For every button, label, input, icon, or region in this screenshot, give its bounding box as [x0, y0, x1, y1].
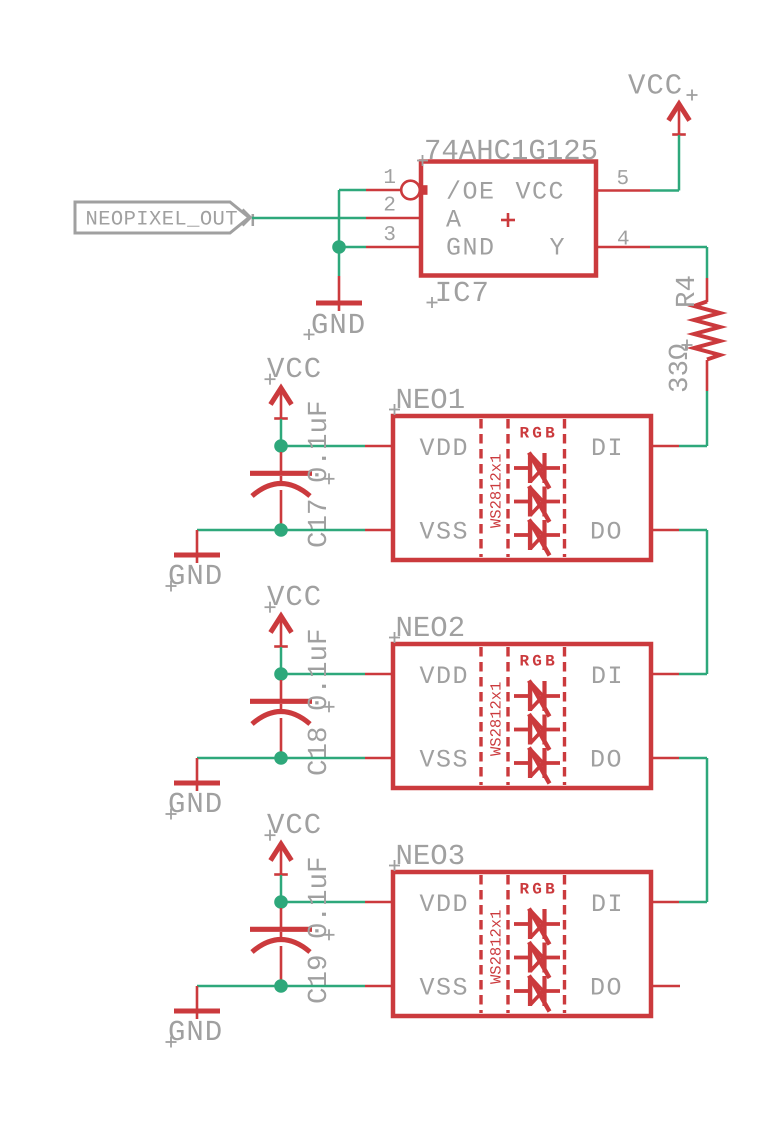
svg-text:GND: GND	[168, 788, 223, 821]
pin label VSS NEO3	[420, 974, 470, 1003]
svg-text:VSS: VSS	[420, 974, 470, 1003]
pin 2 A lead	[366, 217, 421, 220]
label GND (NEO1)	[166, 560, 224, 593]
svg-text:GND: GND	[446, 234, 496, 263]
wire NEOPIXEL_OUT to pin 2	[252, 217, 366, 220]
dashed divider mid NEO3	[506, 875, 509, 1013]
wire VCC to node NEO2-VDD	[280, 647, 283, 674]
svg-text:WS2812x1: WS2812x1	[488, 682, 506, 756]
pin label VDD NEO2	[420, 662, 470, 691]
pin VDD lead NEO3	[365, 901, 393, 904]
pin number 3	[383, 224, 396, 247]
pin 4 Y lead	[596, 246, 650, 249]
pin DO lead NEO1	[651, 529, 679, 532]
label VCC (NEO1)	[265, 353, 323, 386]
svg-text:VDD: VDD	[420, 890, 470, 919]
svg-text:NEO2: NEO2	[396, 612, 466, 645]
component name 74AHC1G125	[417, 135, 598, 168]
wire GND to VSS pin NEO3	[197, 985, 365, 988]
svg-text:DO: DO	[590, 518, 623, 547]
power VCC for NEO3	[271, 844, 292, 875]
label GND (IC7 input)	[304, 309, 367, 342]
wire GND to VSS pin NEO1	[197, 529, 365, 532]
svg-text:33Ω: 33Ω	[665, 343, 696, 393]
svg-text:DO: DO	[590, 746, 623, 775]
ground GND for NEO1	[174, 530, 220, 563]
wire vertical tie pins 1-2-3	[338, 190, 341, 276]
pin VSS lead NEO1	[365, 529, 393, 532]
refdes NEO3	[389, 840, 465, 873]
label GND (NEO3)	[166, 1016, 224, 1049]
svg-text:3: 3	[383, 224, 396, 247]
label VCC (top right)	[628, 70, 698, 103]
svg-text:NEO3: NEO3	[396, 840, 466, 873]
svg-text:1: 1	[383, 167, 396, 190]
label RGB (NEO1)	[520, 425, 558, 443]
power VCC for NEO2	[271, 616, 292, 647]
svg-text:VCC: VCC	[628, 70, 683, 103]
node VSS junction NEO1	[274, 523, 288, 537]
LED D3 inside NEO3	[514, 976, 560, 1012]
LED module NEO2 body	[393, 644, 651, 788]
capacitor C18 0.1uF	[250, 680, 312, 758]
svg-text:0.1uF: 0.1uF	[304, 628, 335, 711]
LED D1 inside NEO1	[514, 453, 560, 489]
node VSS junction NEO2	[274, 751, 288, 765]
wire stub to pin 1	[339, 189, 366, 192]
svg-text:GND: GND	[168, 560, 223, 593]
svg-text:VSS: VSS	[420, 518, 470, 547]
refdes C19	[304, 954, 335, 1004]
wire VCC to node NEO3-VDD	[280, 875, 283, 902]
label VCC (NEO2)	[265, 581, 323, 614]
pin DI lead NEO2	[651, 673, 679, 676]
svg-text:0.1uF: 0.1uF	[304, 400, 335, 483]
svg-text:C18: C18	[304, 726, 335, 776]
label GND (NEO2)	[166, 788, 224, 821]
ground GND for NEO3	[174, 986, 220, 1019]
svg-text:RGB: RGB	[520, 653, 558, 671]
svg-text:VDD: VDD	[420, 662, 470, 691]
LED D1 inside NEO2	[514, 681, 560, 717]
wire pin 4 to R4	[650, 247, 707, 278]
wire NEO2 DO to NEO3 DI	[679, 758, 707, 902]
svg-text:2: 2	[383, 195, 396, 218]
LED module NEO1 body	[393, 416, 651, 560]
svg-text:GND: GND	[168, 1016, 223, 1049]
svg-text:DI: DI	[591, 434, 624, 463]
resistor R4 33 ohm	[694, 278, 720, 391]
origin cross IC7 (red)	[501, 213, 515, 227]
refdes C17	[304, 498, 335, 548]
svg-text:/OE: /OE	[446, 178, 496, 207]
pin label /OE	[446, 178, 496, 207]
node junction pins 2-3-GND	[332, 240, 346, 254]
pin label VCC (IC7)	[516, 178, 566, 207]
label RGB (NEO3)	[520, 881, 558, 899]
svg-text:VDD: VDD	[420, 434, 470, 463]
svg-text:Y: Y	[550, 234, 567, 263]
value 0.1uF (C19)	[304, 856, 335, 940]
value WS2812x1 (NEO3)	[488, 910, 506, 984]
pin VSS lead NEO3	[365, 985, 393, 988]
pin label DI NEO3	[591, 890, 624, 919]
pin DO lead NEO2	[651, 757, 679, 760]
svg-text:DI: DI	[591, 890, 624, 919]
pin VSS lead NEO2	[365, 757, 393, 760]
refdes IC7	[427, 277, 490, 310]
label VCC (NEO3)	[265, 809, 323, 842]
svg-text:RGB: RGB	[520, 881, 558, 899]
value WS2812x1 (NEO2)	[488, 682, 506, 756]
wire node to VDD pin NEO2	[281, 673, 365, 676]
wire GND to VSS pin NEO2	[197, 757, 365, 760]
pin number 4	[617, 229, 630, 252]
pin DI lead NEO1	[651, 445, 679, 448]
svg-text:VCC: VCC	[267, 581, 322, 614]
pin label DO NEO1	[590, 518, 623, 547]
pin 3 GND lead	[366, 246, 421, 249]
pin label DO NEO3	[590, 974, 623, 1003]
pin VDD lead NEO1	[365, 445, 393, 448]
dashed divider right NEO2	[563, 647, 566, 785]
pin label VDD NEO1	[420, 434, 470, 463]
pin VDD lead NEO2	[365, 673, 393, 676]
pin label Y	[550, 234, 567, 263]
refdes R4	[672, 275, 703, 308]
svg-text:GND: GND	[311, 309, 366, 342]
svg-text:VSS: VSS	[420, 746, 470, 775]
pin label A	[446, 206, 463, 235]
pin DO lead NEO3	[651, 985, 680, 988]
ground GND at IC7 input	[316, 276, 362, 311]
refdes C18	[304, 726, 335, 776]
pin label DI NEO1	[591, 434, 624, 463]
pin label DO NEO2	[590, 746, 623, 775]
svg-text:VCC: VCC	[516, 178, 566, 207]
svg-text:IC7: IC7	[435, 277, 490, 310]
power VCC for NEO1	[271, 388, 292, 419]
dashed divider mid NEO2	[506, 647, 509, 785]
svg-text:C19: C19	[304, 954, 335, 1004]
dashed divider left NEO1	[479, 419, 482, 557]
wire node to VDD pin NEO3	[281, 901, 365, 904]
dashed divider left NEO2	[479, 647, 482, 785]
capacitor C17 0.1uF	[250, 452, 312, 530]
svg-text:5: 5	[617, 168, 630, 191]
svg-text:R4: R4	[672, 275, 703, 308]
refdes NEO1	[389, 384, 465, 417]
dashed divider mid NEO1	[506, 419, 509, 557]
wire stub to pin 3	[339, 246, 366, 249]
svg-text:0.1uF: 0.1uF	[304, 856, 335, 939]
pin label VSS NEO1	[420, 518, 470, 547]
svg-text:VCC: VCC	[267, 353, 322, 386]
value 0.1uF (C17)	[304, 400, 335, 484]
wire VCC to node NEO1-VDD	[280, 419, 283, 446]
svg-text:WS2812x1: WS2812x1	[488, 910, 506, 984]
svg-text:74AHC1G125: 74AHC1G125	[424, 135, 598, 168]
refdes NEO2	[389, 612, 465, 645]
value WS2812x1 (NEO1)	[488, 454, 506, 528]
label RGB (NEO2)	[520, 653, 558, 671]
svg-text:RGB: RGB	[520, 425, 558, 443]
power VCC at pin 5 symbol	[669, 104, 690, 135]
net label NEOPIXEL_OUT flag	[75, 202, 253, 233]
value 33 Ohm	[665, 340, 696, 394]
svg-text:DO: DO	[590, 974, 623, 1003]
LED D1 inside NEO3	[514, 909, 560, 945]
svg-text:VCC: VCC	[267, 809, 322, 842]
pin label GND (IC7)	[446, 234, 496, 263]
node VDD junction NEO3	[274, 895, 288, 909]
pin label VDD NEO3	[420, 890, 470, 919]
node VSS junction NEO3	[274, 979, 288, 993]
pin label VSS NEO2	[420, 746, 470, 775]
svg-text:NEO1: NEO1	[396, 384, 466, 417]
LED D2 inside NEO1	[514, 486, 560, 522]
LED D2 inside NEO3	[514, 942, 560, 978]
pin 1 /OE lead with inversion bubble	[366, 181, 428, 200]
wire R4 to NEO1 DI	[679, 391, 707, 446]
wire NEO1 DO to NEO2 DI	[679, 530, 707, 674]
LED D3 inside NEO1	[514, 520, 560, 556]
pin number 2	[383, 195, 396, 218]
dashed divider right NEO3	[563, 875, 566, 1013]
svg-text:DI: DI	[591, 662, 624, 691]
op-amp U1 buffer IC7 body outline	[421, 162, 596, 276]
LED D2 inside NEO2	[514, 714, 560, 750]
svg-text:WS2812x1: WS2812x1	[488, 454, 506, 528]
dashed divider left NEO3	[479, 875, 482, 1013]
pin number 5	[617, 168, 630, 191]
node VDD junction NEO1	[274, 439, 288, 453]
LED D3 inside NEO2	[514, 748, 560, 784]
wire node to VDD pin NEO1	[281, 445, 365, 448]
LED module NEO3 body	[393, 872, 651, 1016]
pin number 1	[383, 167, 396, 190]
ground GND for NEO2	[174, 758, 220, 791]
svg-text:4: 4	[617, 229, 630, 252]
svg-text:A: A	[446, 206, 463, 235]
svg-text:C17: C17	[304, 498, 335, 548]
wire pin 5 to VCC	[650, 135, 679, 191]
capacitor C19 0.1uF	[250, 908, 312, 986]
pin 5 VCC lead	[596, 189, 650, 192]
pin DI lead NEO3	[651, 901, 679, 904]
node VDD junction NEO2	[274, 667, 288, 681]
pin label DI NEO2	[591, 662, 624, 691]
value 0.1uF (C18)	[304, 628, 335, 712]
svg-text:NEOPIXEL_OUT: NEOPIXEL_OUT	[86, 209, 238, 232]
dashed divider right NEO1	[563, 419, 566, 557]
